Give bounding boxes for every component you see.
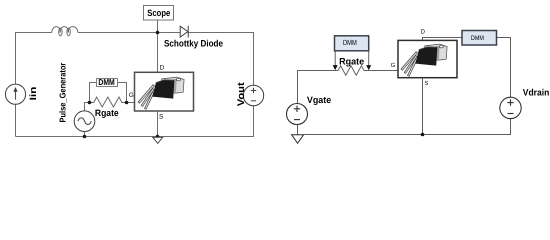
resistor Rgate (left): [90, 97, 127, 107]
DMM box 1 (right): [335, 36, 369, 51]
wire dmm1 stem left: [334, 51, 336, 66]
wire top right segment: [189, 33, 254, 86]
junction dot rgate left: [88, 101, 92, 105]
wire gate right segment: [364, 70, 398, 72]
mosfet U2 TO-220 graphic: [401, 44, 447, 76]
mosfet box U2: [398, 40, 457, 77]
svg-text:Vout: Vout: [236, 81, 247, 106]
schottky diode D1: [180, 26, 188, 38]
wire vgate bottom: [297, 125, 299, 135]
junction dot top: [156, 31, 160, 35]
wire dmm1 stem right: [368, 51, 370, 66]
wire pulse-gen bottom: [84, 132, 86, 137]
probe arrow right: [366, 65, 371, 70]
wire vgate top: [298, 71, 339, 104]
junction dot source bottom: [156, 135, 160, 139]
svg-text:G: G: [129, 92, 134, 99]
DMM box 2 (right): [462, 31, 497, 46]
svg-text:S: S: [424, 80, 428, 87]
wire pulse-gen top: [85, 103, 90, 111]
svg-text:Scope: Scope: [147, 8, 170, 18]
mosfet box U1: [135, 72, 194, 111]
pulse generator source: [74, 111, 95, 132]
wire bottom (right): [304, 119, 511, 135]
junction dot rgate right: [125, 101, 129, 105]
svg-text:DMM: DMM: [98, 77, 114, 87]
svg-text:Schottky Diode: Schottky Diode: [164, 38, 223, 49]
wire source (right): [422, 78, 424, 135]
resistor Rgate (right): [338, 66, 364, 75]
svg-text:DMM: DMM: [343, 38, 357, 47]
voltage source Vdrain: [500, 97, 521, 118]
current source Iin: [5, 84, 25, 104]
wire source: [157, 111, 159, 137]
wire dmm2 to vdrain: [497, 38, 511, 98]
svg-text:D: D: [160, 64, 165, 71]
mosfet U1 TO-220 graphic: [138, 77, 184, 109]
svg-text:Vdrain: Vdrain: [523, 88, 550, 98]
DMM box (left): [97, 79, 118, 87]
svg-text:S: S: [159, 113, 163, 120]
wire left lower segment: [15, 104, 17, 136]
wire scope stub: [157, 20, 159, 33]
inductor L: [52, 27, 78, 36]
svg-text:D: D: [421, 29, 426, 36]
wire top-left segment: [16, 33, 52, 85]
wire dmm parallel loop right: [117, 83, 127, 103]
svg-text:Rgate: Rgate: [95, 108, 119, 118]
ground (right): [292, 135, 304, 144]
wire gate to box: [127, 102, 135, 104]
svg-text:Rgate: Rgate: [339, 55, 364, 66]
probe arrow left: [333, 65, 338, 70]
voltage source Vout: [243, 85, 263, 105]
wire dmm parallel loop left: [90, 83, 97, 103]
svg-text:DMM: DMM: [471, 35, 484, 42]
svg-text:Iin: Iin: [28, 86, 38, 100]
wire bottom segment: [16, 106, 254, 137]
scope box: [144, 6, 174, 21]
svg-text:Pulse_Generator: Pulse_Generator: [58, 62, 68, 122]
wire top middle segment: [78, 32, 180, 34]
junction dot bottom (right): [421, 133, 425, 137]
svg-text:Vgate: Vgate: [307, 95, 331, 105]
wire drain: [157, 33, 159, 73]
wire drain (right): [423, 38, 463, 41]
junction dot pulse-gen bottom: [83, 135, 87, 139]
ground (left): [153, 137, 163, 143]
svg-text:G: G: [391, 62, 396, 69]
voltage source Vgate: [287, 104, 308, 125]
